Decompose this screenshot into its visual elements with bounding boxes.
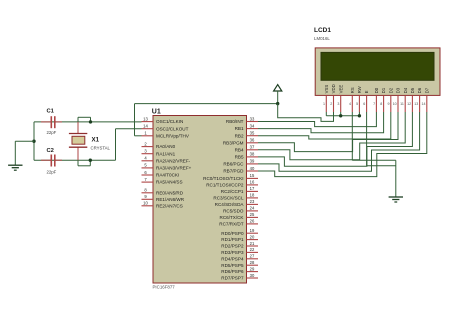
- svg-text:D6: D6: [417, 87, 422, 93]
- U1 pin 39 RB6/PGC: [223, 159, 258, 167]
- svg-text:RE2/AN7/CS: RE2/AN7/CS: [156, 203, 183, 208]
- svg-text:36: 36: [250, 138, 255, 143]
- node crystal-bottom / C2 junction: [89, 159, 92, 162]
- svg-text:11: 11: [400, 102, 404, 106]
- wire RB6 to LCD D6: [258, 112, 420, 171]
- svg-text:RC3/SCK/SCL: RC3/SCK/SCL: [213, 196, 244, 201]
- svg-text:21: 21: [250, 241, 255, 246]
- node RW tie junction: [358, 114, 361, 117]
- svg-text:D2: D2: [388, 87, 393, 93]
- ground GND1 (left): [8, 165, 22, 170]
- U1 pin 3 RA1/AN1: [142, 149, 176, 157]
- svg-text:10: 10: [393, 102, 397, 106]
- svg-text:RC7/RX/DT: RC7/RX/DT: [219, 222, 243, 227]
- svg-text:D0: D0: [374, 87, 379, 93]
- svg-text:7: 7: [373, 102, 375, 106]
- U1 pin 8 RE0/AN5/RD: [142, 188, 184, 196]
- svg-text:RD2/PSP2: RD2/PSP2: [221, 244, 244, 249]
- svg-text:RB7/PGD: RB7/PGD: [223, 169, 244, 174]
- svg-text:6: 6: [363, 102, 365, 106]
- svg-text:RC6/TX/CK: RC6/TX/CK: [220, 215, 245, 220]
- svg-text:VEE: VEE: [338, 85, 343, 94]
- svg-text:12: 12: [407, 102, 411, 106]
- U1 pin 21 RD2/PSP2: [221, 241, 258, 249]
- svg-text:RD3/PSP3: RD3/PSP3: [221, 250, 244, 255]
- U1 pin 40 RB7/PGD: [223, 166, 258, 174]
- svg-text:RD7/PSP7: RD7/PSP7: [221, 276, 244, 281]
- LCD1 pin 13 D6: [414, 87, 422, 112]
- svg-text:9: 9: [388, 102, 390, 106]
- U1 pin 20 RD1/PSP1: [221, 234, 258, 242]
- U1 pin 13 OSC1/CLKIN: [142, 116, 184, 124]
- node MCLR/power junction: [276, 102, 279, 105]
- LCD1 pin 3 VEE: [337, 85, 343, 112]
- svg-text:10: 10: [143, 201, 148, 206]
- wire left rail (C1-C2): [33, 122, 35, 160]
- svg-text:PIC16F877: PIC16F877: [153, 284, 176, 289]
- svg-text:RB6/PGC: RB6/PGC: [223, 162, 244, 167]
- svg-text:14: 14: [422, 102, 426, 106]
- svg-text:22pF: 22pF: [47, 130, 57, 135]
- svg-text:13: 13: [414, 102, 418, 106]
- node left-rail/ground junction: [32, 140, 35, 143]
- U1 pin 27 RD4/PSP4: [221, 254, 258, 262]
- svg-text:MCLR/Vpp/THV: MCLR/Vpp/THV: [156, 133, 190, 138]
- svg-text:D5: D5: [410, 87, 415, 93]
- svg-text:15: 15: [250, 173, 255, 178]
- svg-text:OSC1/CLKIN: OSC1/CLKIN: [156, 119, 183, 124]
- svg-text:1: 1: [323, 102, 325, 106]
- U1 pin 18 RC3/SCK/SCL: [213, 193, 258, 201]
- LCD1 pin 7 D0: [373, 87, 379, 112]
- svg-text:LCD1: LCD1: [314, 27, 331, 34]
- U1 pin 35 RB2: [235, 131, 258, 139]
- svg-text:20: 20: [250, 234, 255, 239]
- svg-text:22: 22: [250, 247, 255, 252]
- wire crystal bottom jog: [78, 160, 90, 166]
- svg-text:8: 8: [380, 102, 382, 106]
- wire RB0 to LCD D0: [258, 112, 376, 127]
- svg-text:VDD: VDD: [331, 84, 336, 93]
- wire OSC1 net (C1 row): [34, 121, 142, 123]
- svg-text:39: 39: [250, 159, 255, 164]
- svg-text:U1: U1: [152, 108, 161, 115]
- U1 pin 17 RC2/CCP1: [221, 186, 258, 194]
- svg-text:VSS: VSS: [324, 85, 329, 94]
- crystal X1: [69, 122, 111, 160]
- U1 pin 30 RD7/PSP7: [221, 273, 258, 281]
- node VEE tie junction: [339, 114, 342, 117]
- svg-text:23: 23: [250, 199, 255, 204]
- svg-text:RA0/AN0: RA0/AN0: [156, 144, 176, 149]
- svg-text:RB4: RB4: [235, 147, 244, 152]
- wire RB4 to LCD D4: [258, 112, 405, 160]
- svg-text:RB5: RB5: [235, 155, 244, 160]
- svg-text:D7: D7: [424, 87, 429, 93]
- LCD1 pin 11 D4: [400, 87, 408, 112]
- wire to left ground: [15, 141, 34, 165]
- U1 pin 4 RA2/AN2/VREF-: [142, 156, 191, 164]
- svg-text:RS: RS: [350, 87, 355, 93]
- U1 pin 26 RC7/RX/DT: [219, 219, 258, 227]
- wire OSC2 jog: [116, 129, 142, 161]
- LCD1 pin 6 E: [363, 90, 369, 112]
- svg-text:19: 19: [250, 228, 255, 233]
- U1 pin 22 RD3/PSP3: [221, 247, 258, 255]
- wire to right ground: [395, 160, 397, 197]
- svg-text:28: 28: [250, 260, 255, 265]
- U1 pin 25 RC6/TX/CK: [220, 212, 259, 220]
- U1 pin 1 MCLR/Vpp/THV: [142, 131, 190, 139]
- wire RB5 to LCD D5: [258, 112, 412, 166]
- svg-text:33: 33: [250, 116, 255, 121]
- svg-text:RA2/AN2/VREF-: RA2/AN2/VREF-: [156, 158, 191, 163]
- svg-text:RC4/SDI/SDA: RC4/SDI/SDA: [215, 202, 245, 207]
- svg-text:RA5/AN4/SS: RA5/AN4/SS: [156, 180, 183, 185]
- LCD1 pin 10 D3: [393, 87, 401, 112]
- svg-text:5: 5: [356, 102, 358, 106]
- U1 pin 7 RA5/AN4/SS: [142, 177, 183, 185]
- svg-text:E: E: [364, 90, 369, 93]
- svg-text:RB2: RB2: [235, 133, 244, 138]
- capacitor C1: [41, 108, 62, 135]
- svg-text:D4: D4: [403, 87, 408, 93]
- svg-text:OSC2/CLKOUT: OSC2/CLKOUT: [156, 126, 189, 131]
- wire VSS-VEE-RW ground tie: [326, 112, 359, 116]
- svg-text:22pF: 22pF: [47, 170, 57, 175]
- svg-text:27: 27: [250, 254, 255, 259]
- svg-text:37: 37: [250, 145, 255, 150]
- U1 pin 37 RB4: [235, 145, 258, 153]
- U1 pin 36 RB3/PGM: [223, 138, 258, 146]
- svg-text:RD5/PSP5: RD5/PSP5: [221, 263, 244, 268]
- svg-text:3: 3: [337, 102, 339, 106]
- svg-text:2: 2: [330, 102, 332, 106]
- svg-text:D1: D1: [381, 87, 386, 93]
- ground GND2 (right): [389, 197, 403, 202]
- svg-text:X1: X1: [92, 136, 100, 143]
- wire RB2 to LCD D2: [258, 112, 391, 139]
- U1 pin 2 RA0/AN0: [142, 141, 176, 149]
- svg-text:16: 16: [250, 180, 255, 185]
- svg-text:38: 38: [250, 152, 255, 157]
- LCD1 pin 2 VDD: [330, 84, 336, 112]
- LCD1 pin 1 VSS: [323, 85, 329, 112]
- LCD1 pin 4 RS: [349, 87, 355, 112]
- wire RB1 to LCD D1: [258, 112, 384, 133]
- svg-text:RC5/SDO: RC5/SDO: [223, 209, 244, 214]
- microcontroller U1 PIC16F877 body: [153, 116, 247, 284]
- U1 pin 23 RC4/SDI/SDA: [215, 199, 258, 207]
- LCD1 pin 5 RW: [356, 85, 362, 112]
- svg-text:RB3/PGM: RB3/PGM: [223, 140, 244, 145]
- svg-text:RB1: RB1: [235, 126, 244, 131]
- svg-text:30: 30: [250, 273, 255, 278]
- svg-text:RC0/T1OSO/T1CKI: RC0/T1OSO/T1CKI: [203, 176, 243, 181]
- U1 pin 33 RB0/INT: [226, 116, 258, 124]
- svg-text:RC1/T1OSI/CCP2: RC1/T1OSI/CCP2: [206, 183, 244, 188]
- LCD1 pin 12 D5: [407, 87, 415, 112]
- svg-text:C1: C1: [47, 108, 55, 114]
- U1 pin 14 OSC2/CLKOUT: [142, 124, 189, 132]
- svg-text:18: 18: [250, 193, 255, 198]
- U1 pin 29 RD6/PSP6: [221, 266, 258, 274]
- node crystal-top / OSC1 junction: [89, 120, 92, 123]
- LCD1 pin 14 D7: [422, 87, 430, 112]
- svg-text:25: 25: [250, 212, 255, 217]
- U1 pin 15 RC0/T1OSO/T1CKI: [203, 173, 258, 181]
- svg-text:CRYSTAL: CRYSTAL: [91, 146, 111, 151]
- U1 pin 38 RB5: [235, 152, 258, 160]
- svg-text:RE1/AN6/WR: RE1/AN6/WR: [156, 197, 185, 202]
- svg-text:D3: D3: [396, 87, 401, 93]
- wire RB3 to LCD D3: [258, 112, 398, 152]
- wire power to LCD VDD: [278, 104, 334, 122]
- svg-text:C2: C2: [47, 148, 54, 154]
- power +5V arrow: [274, 85, 282, 104]
- svg-text:RA1/AN1: RA1/AN1: [156, 151, 176, 156]
- wire C2 row net: [34, 159, 116, 161]
- wire RB7 to LCD D7: [258, 112, 427, 177]
- svg-text:RD0/PSP0: RD0/PSP0: [221, 231, 244, 236]
- U1 pin 19 RD0/PSP0: [221, 228, 258, 236]
- svg-text:40: 40: [250, 166, 255, 171]
- svg-text:24: 24: [250, 206, 255, 211]
- svg-text:RC2/CCP1: RC2/CCP1: [221, 189, 244, 194]
- svg-text:35: 35: [250, 131, 255, 136]
- U1 pin 5 RA3/AN3/VREF+: [142, 163, 192, 171]
- svg-text:RD1/PSP1: RD1/PSP1: [221, 237, 244, 242]
- svg-text:RB0/INT: RB0/INT: [226, 119, 244, 124]
- U1 pin 6 RA4/T0CKI: [142, 170, 180, 178]
- svg-text:RA4/T0CKI: RA4/T0CKI: [156, 173, 179, 178]
- svg-text:4: 4: [349, 102, 351, 106]
- svg-text:34: 34: [250, 123, 255, 128]
- U1 pin 10 RE2/AN7/CS: [142, 201, 183, 209]
- wire MCLR to VDD rail: [135, 104, 278, 136]
- LCD screen: [321, 52, 434, 80]
- svg-text:RW: RW: [357, 85, 362, 93]
- svg-text:LM016L: LM016L: [314, 36, 330, 41]
- svg-text:RE0/AN5/RD: RE0/AN5/RD: [156, 190, 184, 195]
- LCD1 pin 8 D1: [380, 87, 386, 112]
- svg-text:14: 14: [143, 124, 148, 129]
- LCD1 pin 9 D2: [388, 87, 394, 112]
- U1 pin 16 RC1/T1OSI/CCP2: [206, 180, 258, 188]
- svg-text:RA3/AN3/VREF+: RA3/AN3/VREF+: [156, 166, 192, 171]
- U1 pin 34 RB1: [235, 123, 258, 131]
- svg-text:29: 29: [250, 266, 255, 271]
- LCD LCD1 LM016L body: [315, 48, 440, 96]
- capacitor C2: [41, 148, 62, 175]
- svg-text:RD4/PSP4: RD4/PSP4: [221, 256, 244, 261]
- svg-text:13: 13: [143, 116, 148, 121]
- svg-text:17: 17: [250, 186, 255, 191]
- U1 pin 28 RD5/PSP5: [221, 260, 258, 268]
- wire crystal top jog: [78, 117, 91, 122]
- svg-text:RD6/PSP6: RD6/PSP6: [221, 269, 244, 274]
- wire RS run: [352, 112, 396, 160]
- wire E run: [367, 112, 396, 166]
- svg-text:26: 26: [250, 219, 255, 224]
- U1 pin 9 RE1/AN6/WR: [142, 194, 185, 202]
- U1 pin 24 RC5/SDO: [223, 206, 258, 214]
